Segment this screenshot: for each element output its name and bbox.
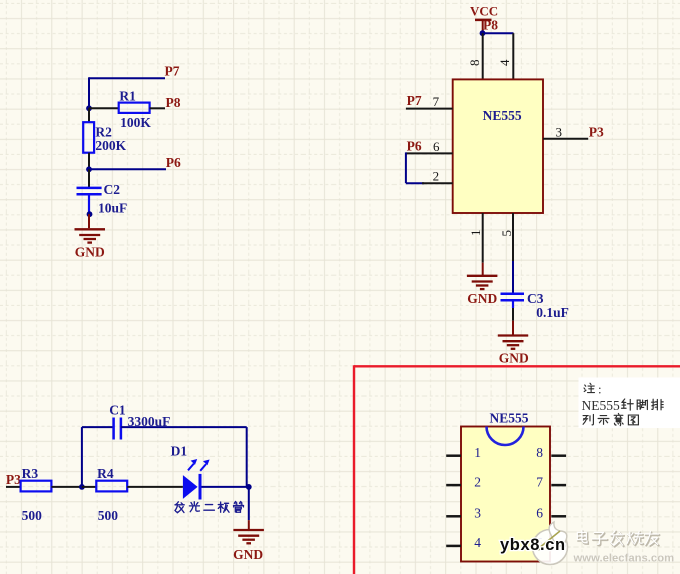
svg-text:3: 3	[556, 125, 563, 140]
svg-text:P8: P8	[483, 17, 498, 32]
svg-text:200K: 200K	[95, 138, 126, 153]
svg-text:C2: C2	[104, 182, 121, 197]
svg-text:NE555: NE555	[490, 411, 529, 426]
svg-text:100K: 100K	[120, 115, 151, 130]
svg-text:NE555: NE555	[483, 108, 522, 123]
ground symbol (pin1)	[467, 276, 498, 289]
capacitor C3	[501, 294, 525, 308]
svg-text:2: 2	[474, 474, 481, 489]
svg-text:P7: P7	[407, 93, 422, 108]
op-amp U1 NE555 body	[453, 79, 543, 213]
svg-text:R1: R1	[119, 88, 136, 103]
svg-text:500: 500	[22, 508, 42, 523]
svg-text::: :	[598, 382, 602, 397]
svg-text:6: 6	[433, 139, 440, 154]
pin 4	[512, 33, 514, 79]
wire P6 net	[89, 168, 166, 170]
svg-text:8: 8	[467, 60, 482, 67]
svg-text:8: 8	[536, 445, 543, 460]
note line2 NE555针脚排	[582, 398, 664, 413]
wire R3 to junction	[51, 486, 82, 488]
watermark 电子发烧友	[577, 530, 659, 546]
note line3 列示意图	[583, 413, 638, 425]
pin 2	[422, 182, 453, 184]
svg-text:6: 6	[536, 506, 543, 521]
wire R1 to P8	[150, 107, 165, 109]
red highlight box	[354, 365, 680, 574]
wire vcc to pin4	[483, 32, 514, 34]
svg-text:www.elecfans.com: www.elecfans.com	[573, 553, 675, 565]
power VCC	[470, 3, 498, 33]
note white panel	[579, 378, 680, 429]
node junction R1/R2	[86, 105, 92, 111]
wire C2 to ground	[88, 214, 90, 228]
wire P7 net	[89, 77, 165, 108]
wire to R1	[89, 107, 119, 109]
wire junction to R2	[88, 108, 90, 122]
resistor R2	[83, 122, 94, 153]
note line1 注:	[584, 382, 602, 397]
svg-text:C3: C3	[527, 291, 544, 306]
IC notch arc	[487, 427, 524, 446]
svg-text:GND: GND	[75, 244, 105, 259]
IC pin stub left 4	[446, 545, 461, 548]
elecfans badge	[533, 522, 568, 565]
LED D1	[183, 459, 210, 500]
IC pin stub left 2	[446, 484, 461, 487]
pin 7	[406, 108, 453, 110]
wire R2 to node P6	[88, 153, 90, 170]
wire R4 to D1	[127, 486, 183, 488]
ground symbol (C3)	[498, 336, 528, 349]
svg-text:GND: GND	[233, 547, 263, 562]
svg-text:P3: P3	[589, 124, 604, 139]
pin 1	[482, 213, 484, 263]
svg-text:4: 4	[497, 59, 512, 66]
svg-text:D1: D1	[171, 443, 188, 458]
resistor R1	[119, 103, 150, 113]
pin 8	[482, 33, 484, 79]
svg-text:1: 1	[474, 445, 481, 460]
svg-text:R3: R3	[22, 466, 39, 481]
node C2-GND	[87, 211, 93, 217]
IC pin stub right 5	[551, 545, 566, 548]
IC pin stub right 8	[551, 454, 566, 457]
svg-text:0.1uF: 0.1uF	[536, 305, 569, 320]
capacitor C1	[114, 418, 121, 440]
resistor R3	[21, 481, 52, 492]
wire junction to R4	[82, 486, 96, 488]
wire node to ground	[248, 487, 250, 530]
ground symbol (top-left)	[75, 229, 106, 242]
node VCC junction	[480, 30, 486, 36]
svg-text:ybx8.cn: ybx8.cn	[500, 536, 566, 554]
node LED output	[246, 484, 252, 490]
svg-text:P8: P8	[166, 95, 181, 110]
IC pin stub right 7	[551, 484, 566, 487]
pin 5	[512, 213, 514, 261]
svg-text:VCC: VCC	[470, 3, 498, 18]
wire C3 to ground	[512, 308, 514, 336]
svg-text:NE555: NE555	[582, 398, 620, 413]
svg-text:1: 1	[468, 230, 483, 237]
wire pin6 to pin2	[406, 152, 424, 183]
svg-text:C1: C1	[109, 402, 126, 417]
svg-text:P6: P6	[166, 155, 181, 170]
wire D1 to node	[202, 486, 249, 488]
svg-text:2: 2	[433, 169, 440, 184]
svg-text:3: 3	[474, 506, 481, 521]
svg-text:P7: P7	[165, 63, 180, 78]
IC pin stub left 3	[446, 515, 461, 518]
ground symbol (LED)	[233, 530, 264, 543]
svg-text:R4: R4	[97, 466, 114, 481]
svg-text:10uF: 10uF	[98, 201, 127, 216]
wire riser to C1	[82, 427, 114, 487]
svg-text:GND: GND	[467, 291, 497, 306]
svg-text:4: 4	[474, 535, 481, 550]
IC body NE555 pin diagram	[461, 427, 550, 562]
IC pin stub right 6	[551, 515, 566, 518]
wire P3 to R3	[6, 486, 21, 488]
svg-text:5: 5	[499, 230, 514, 237]
svg-text:GND: GND	[499, 351, 529, 366]
svg-text:P3: P3	[6, 472, 21, 487]
pin 6	[406, 152, 453, 154]
node junction P6	[86, 166, 92, 172]
svg-text:7: 7	[536, 474, 543, 489]
wire pin5 to C3	[512, 261, 514, 294]
wire node to C2	[88, 169, 90, 187]
pin 3	[543, 138, 588, 140]
IC pin stub left 1	[446, 454, 461, 457]
svg-text:7: 7	[433, 94, 440, 109]
value 发光二极管	[175, 502, 244, 513]
svg-text:P6: P6	[407, 139, 422, 154]
resistor R4	[96, 481, 127, 492]
svg-text:500: 500	[98, 508, 119, 523]
node junction C1/R4	[79, 484, 85, 490]
wire pin1 to ground	[482, 263, 484, 276]
capacitor C2	[77, 188, 102, 214]
wire C1 to LED node	[121, 427, 247, 487]
